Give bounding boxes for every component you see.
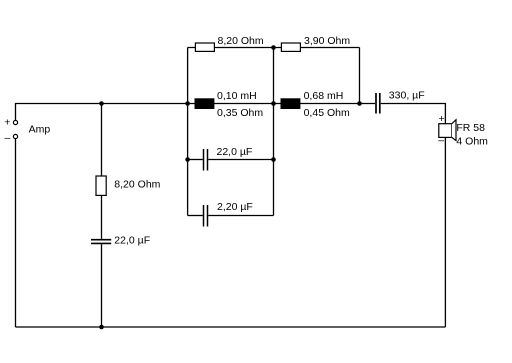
capacitor 22,0 uF (shunt branch) bottom plate [91,242,111,244]
svg-text:8,20 Ohm: 8,20 Ohm [114,178,160,190]
svg-text:3,90 Ohm: 3,90 Ohm [304,35,350,47]
svg-text:+: + [4,117,10,129]
svg-text:+: + [439,113,445,125]
label - (speaker) [438,135,444,147]
wire: 2,20uF rail right segment y=215.5 [208,215,273,217]
svg-text:4 Ohm: 4 Ohm [456,135,488,147]
svg-text:22,0 µF: 22,0 µF [114,235,150,247]
junction node (left vertical / inductor rail) [185,101,190,106]
label 22,0 uF (mid) [217,146,253,158]
svg-text:0,10 mH: 0,10 mH [217,90,257,102]
wire: amp - terminal down to bottom rail [15,139,17,327]
label - (input) [5,132,11,144]
wire: 330uF right plate to speaker top [381,104,446,124]
capacitor 2,20 uF right plate [207,205,209,227]
wire: right vertical x=359.5 (top rail down to inductor rail) [359,48,361,104]
label 0,45 Ohm [304,107,350,119]
resistor 8,20 Ohm (top left, horizontal) [195,43,214,51]
capacitor 22,0 uF (mid) left plate [203,149,205,171]
label FR 58 [456,122,485,134]
label + (speaker) [439,113,445,125]
label 2,20 uF [217,201,253,213]
junction node (right vertical / inductor rail) [357,101,362,106]
junction node (middle vertical / 22uF rail) [271,157,276,162]
svg-text:22,0 µF: 22,0 µF [217,146,253,158]
junction node (shunt branch top) [99,101,104,106]
wire: middle vertical x=273.5 (top rail to 2,20uF rail) [273,48,275,216]
label 0,35 Ohm [217,107,263,119]
label 22,0 uF (shunt) [114,235,150,247]
svg-text:8,20 Ohm: 8,20 Ohm [218,35,264,47]
inductor 0,68 mH (filled box) [281,98,301,109]
capacitor 330 uF left plate [375,93,377,114]
speaker FR 58 box [439,124,452,138]
label 0,10 mH [217,90,257,102]
wire: top resistor rail y=47.5 [188,47,360,49]
svg-text:–: – [5,132,11,144]
svg-text:–: – [438,135,444,147]
label 330, uF [389,90,425,102]
resistor 8,20 Ohm (shunt branch, vertical) [96,176,106,195]
wire: amp + terminal up and right to node at x=187.6 (input rail) [16,104,188,121]
terminal - (input circle) [13,134,17,138]
wire: speaker bottom down to bottom rail [444,137,446,327]
inductor 0,10 mH (filled box) [195,98,215,109]
capacitor 330 uF right plate [379,93,381,114]
label 4 Ohm [456,135,488,147]
label 8,20 Ohm (shunt) [114,178,160,190]
svg-text:2,20 µF: 2,20 µF [217,201,253,213]
wire: 22,0uF rail left segment y=159.5 [188,159,203,161]
svg-text:Amp: Amp [29,124,51,136]
junction node (middle vertical / top rail) [271,45,276,50]
wire: 22,0uF rail right segment y=159.5 [208,159,273,161]
wire: 2,20uF rail left segment y=215.5 [188,215,203,217]
label + (input) [4,117,10,129]
wire: shunt branch lower (capacitor bottom plate to bottom rail) [101,244,103,327]
svg-text:0,68 mH: 0,68 mH [304,90,344,102]
label 0,68 mH [304,90,344,102]
label 8,20 Ohm (top left) [218,35,264,47]
terminal + (input circle) [13,120,17,124]
svg-text:0,35 Ohm: 0,35 Ohm [217,107,263,119]
wire: inductor rail y=103.5 (node x=187.6 to 330uF left plate) [188,103,375,105]
svg-text:FR 58: FR 58 [456,122,485,134]
label 3,90 Ohm [304,35,350,47]
svg-text:330, µF: 330, µF [389,90,425,102]
speaker FR 58 cone [452,120,456,141]
junction node (middle vertical / inductor rail) [271,101,276,106]
svg-text:0,45 Ohm: 0,45 Ohm [304,107,350,119]
wire: left vertical x=187.6 (top rail to 2,20uF rail) [187,48,189,216]
capacitor 22,0 uF (mid) right plate [207,149,209,171]
capacitor 22,0 uF (shunt branch) top plate [91,239,111,241]
junction node (left vertical / 22uF rail) [185,157,190,162]
resistor 3,90 Ohm (top right, horizontal) [281,43,300,51]
wire: bottom rail [16,326,446,328]
label Amp [29,124,51,136]
capacitor 2,20 uF left plate [203,205,205,227]
wire: shunt branch upper (node to capacitor top plate) [101,104,103,239]
junction node (shunt branch bottom) [99,325,104,330]
